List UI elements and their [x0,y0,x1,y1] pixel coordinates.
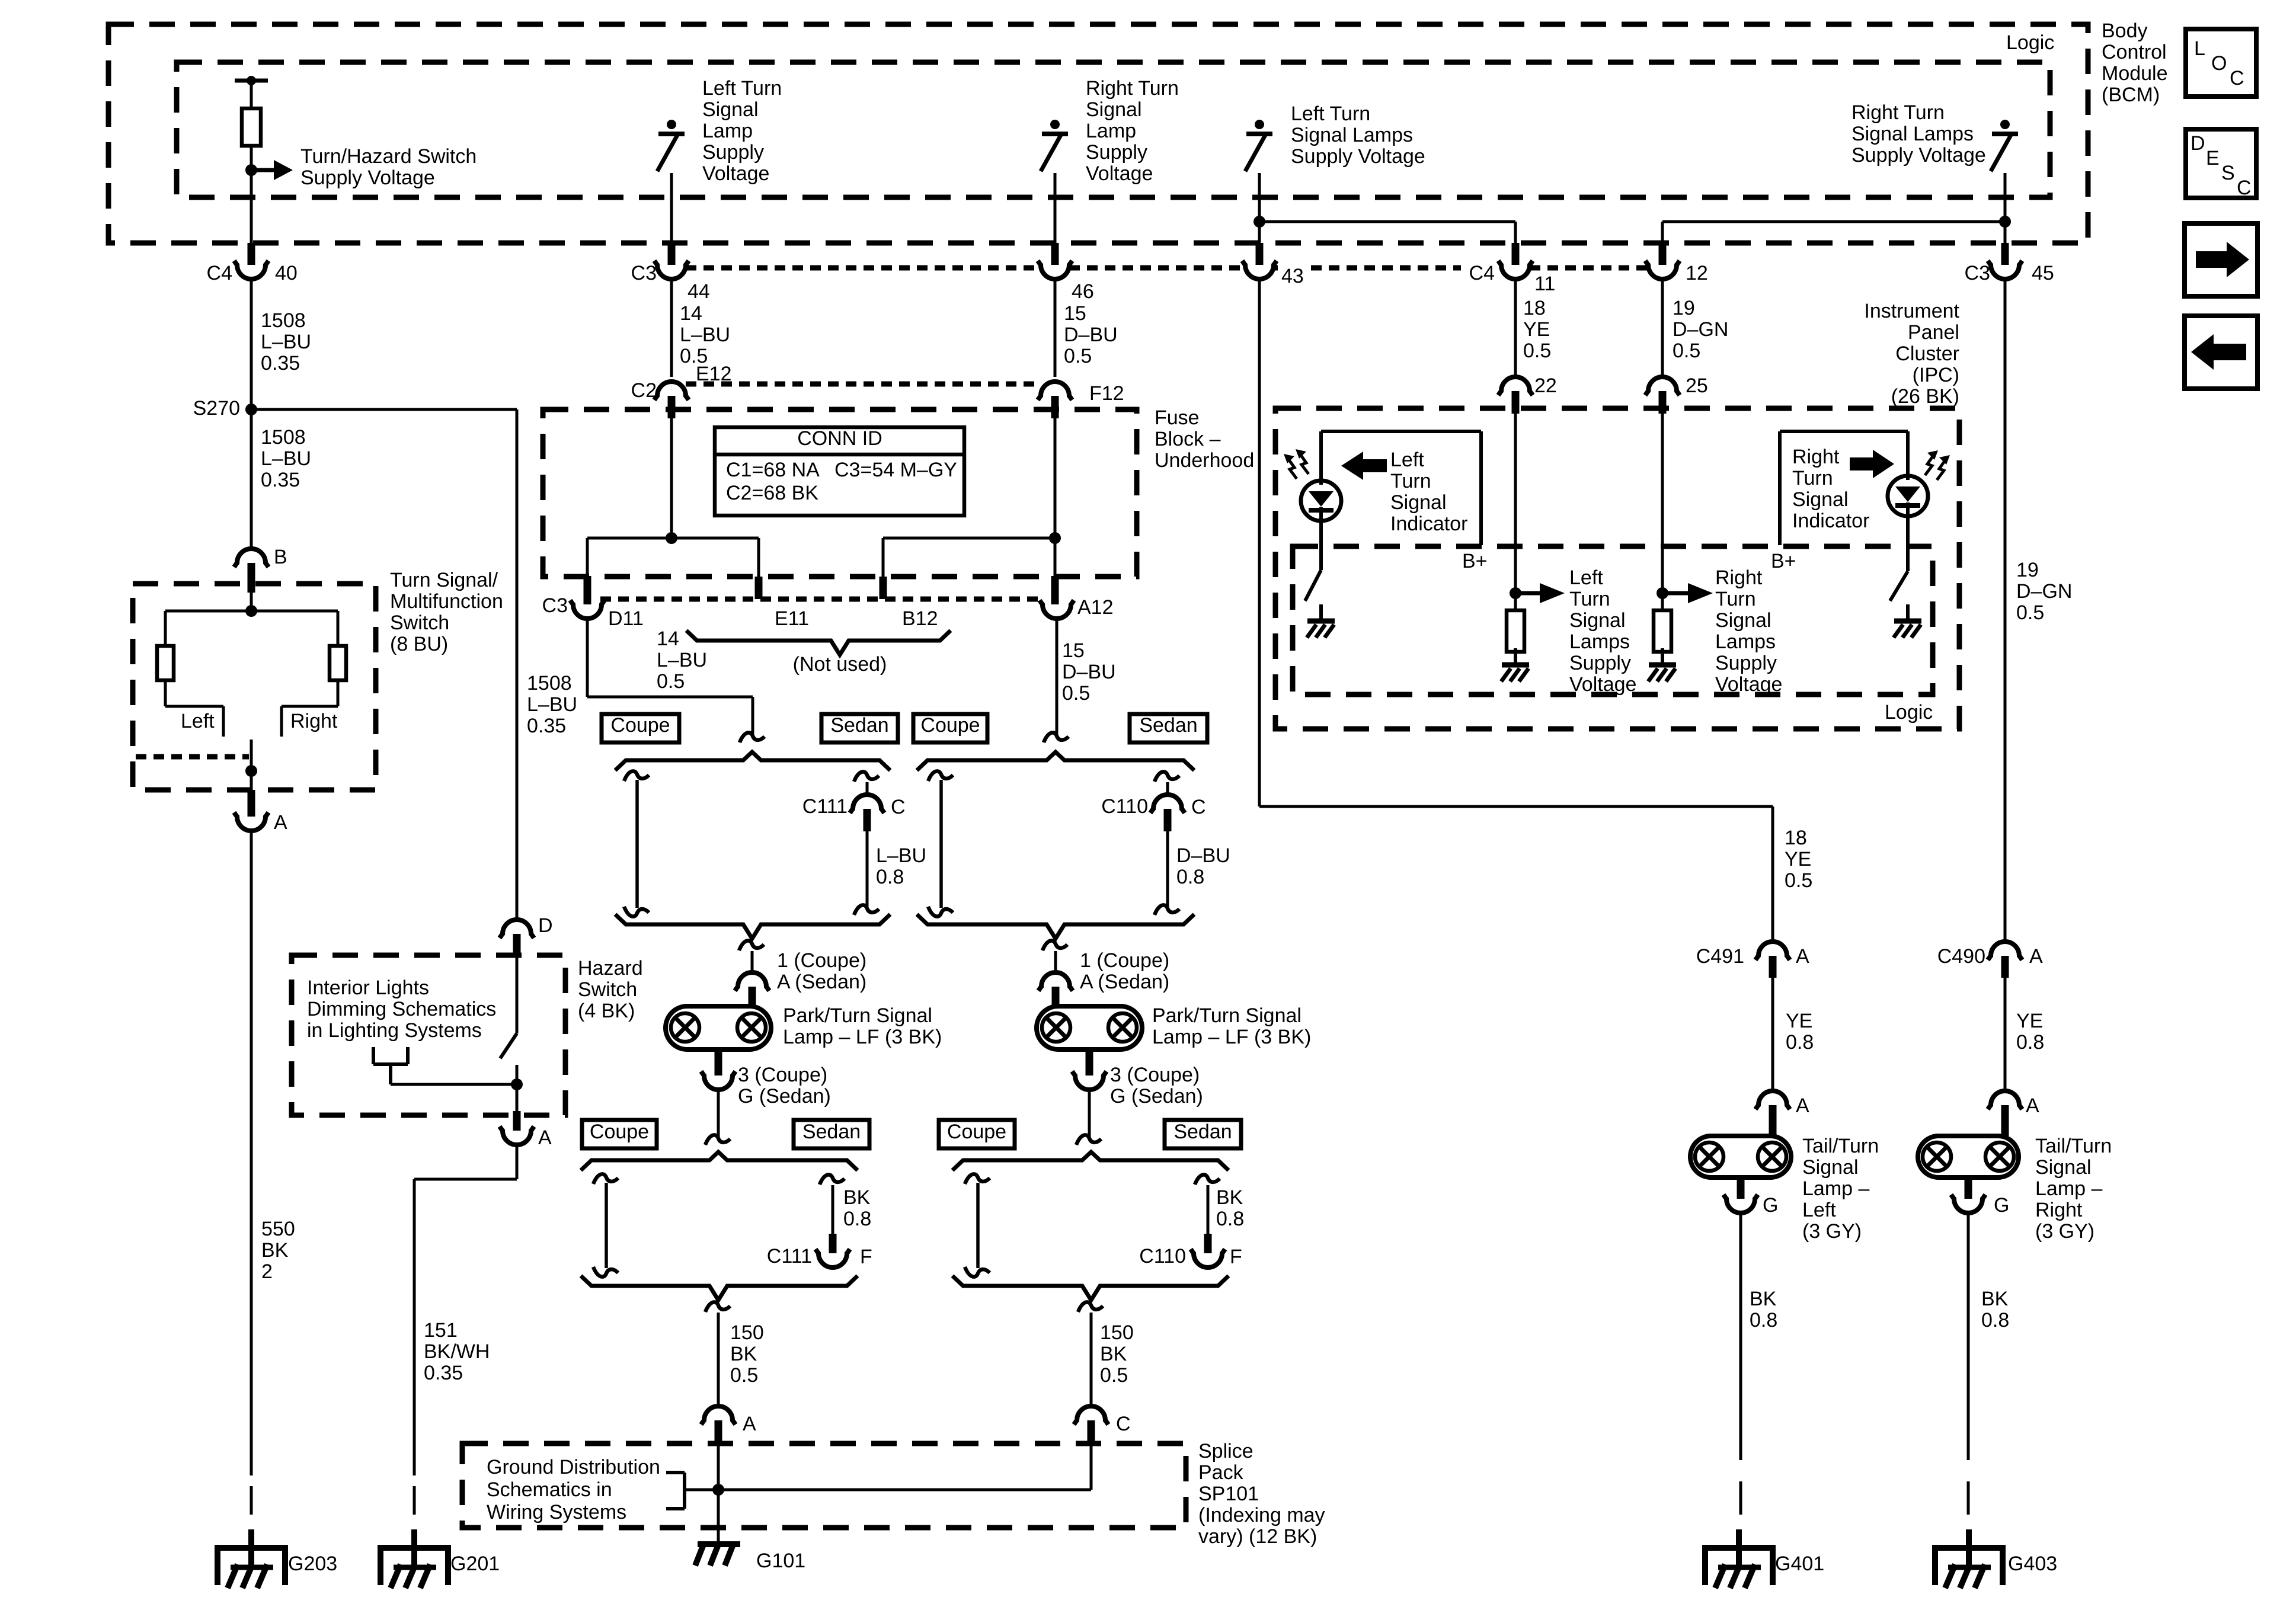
svg-text:Coupe: Coupe [610,714,670,737]
svg-text:46: 46 [1072,280,1094,303]
svg-text:D: D [2191,132,2205,155]
svg-text:E: E [2206,147,2220,169]
svg-text:19: 19 [1673,297,1695,319]
svg-text:11: 11 [1534,273,1555,295]
svg-text:G: G [1763,1194,1778,1217]
svg-text:C3: C3 [631,262,657,284]
svg-text:Sedan: Sedan [1139,714,1197,737]
svg-text:C2=68 BK: C2=68 BK [726,482,818,504]
svg-text:A: A [743,1413,756,1435]
svg-text:Supply Voltage: Supply Voltage [1851,144,1986,167]
svg-text:0.8: 0.8 [1786,1031,1814,1054]
svg-text:B12: B12 [902,607,938,630]
svg-text:C: C [891,796,906,818]
svg-text:SP101: SP101 [1198,1483,1259,1505]
svg-text:151: 151 [424,1319,458,1342]
svg-text:BK: BK [1981,1288,2009,1310]
svg-text:Signal: Signal [1086,98,1142,121]
svg-text:Sedan: Sedan [1173,1121,1232,1143]
svg-text:vary) (12 BK): vary) (12 BK) [1198,1525,1317,1548]
svg-text:Switch: Switch [578,978,637,1001]
svg-text:Multifunction: Multifunction [390,590,503,613]
svg-text:BK: BK [261,1239,289,1262]
svg-text:C111: C111 [802,795,848,818]
svg-text:19: 19 [2016,559,2039,581]
svg-text:0.8: 0.8 [1981,1309,2009,1331]
svg-text:25: 25 [1686,375,1708,397]
svg-text:L–BU: L–BU [876,844,926,867]
svg-text:(26 BK): (26 BK) [1891,385,1959,408]
svg-text:Interior Lights: Interior Lights [307,977,429,999]
svg-text:Signal: Signal [2035,1156,2092,1179]
svg-text:0.5: 0.5 [1523,340,1551,362]
svg-text:0.8: 0.8 [1176,866,1204,888]
svg-text:12: 12 [1686,262,1708,284]
svg-text:550: 550 [261,1218,295,1240]
svg-text:Supply Voltage: Supply Voltage [1291,145,1425,168]
svg-text:C4: C4 [207,262,232,284]
svg-text:0.5: 0.5 [2016,601,2044,624]
svg-text:1508: 1508 [261,426,306,449]
svg-text:F: F [1230,1246,1242,1268]
svg-text:L–BU: L–BU [261,331,311,353]
svg-text:(Indexing may: (Indexing may [1198,1504,1325,1526]
svg-text:A: A [2029,945,2043,968]
svg-text:A: A [538,1126,552,1149]
svg-text:L–BU: L–BU [527,693,577,716]
svg-text:G (Sedan): G (Sedan) [1110,1085,1203,1108]
svg-text:B: B [274,546,287,568]
svg-text:BK: BK [1216,1186,1243,1209]
svg-text:Park/Turn Signal: Park/Turn Signal [1152,1004,1302,1027]
svg-text:Hazard: Hazard [578,957,643,980]
svg-text:Signal: Signal [1569,609,1626,632]
svg-text:YE: YE [2016,1010,2043,1032]
svg-text:1508: 1508 [527,672,572,694]
svg-text:L–BU: L–BU [261,447,311,470]
svg-text:Signal Lamps: Signal Lamps [1851,123,1974,145]
svg-text:14: 14 [680,302,702,325]
svg-text:Voltage: Voltage [1086,162,1153,185]
svg-text:Signal: Signal [1802,1156,1859,1179]
svg-text:0.5: 0.5 [657,670,685,693]
svg-text:F12: F12 [1089,382,1124,405]
svg-text:A (Sedan): A (Sedan) [777,971,866,993]
svg-text:Splice: Splice [1198,1440,1253,1462]
svg-text:18: 18 [1523,297,1546,319]
svg-text:G403: G403 [2008,1553,2057,1575]
svg-text:A: A [1796,945,1809,968]
svg-text:BK: BK [843,1186,871,1209]
svg-text:Right: Right [290,710,338,732]
svg-text:E11: E11 [775,607,809,630]
svg-text:Supply: Supply [1715,652,1777,674]
svg-text:3 (Coupe): 3 (Coupe) [738,1064,827,1086]
svg-text:BK: BK [730,1343,757,1365]
svg-text:Underhood: Underhood [1155,449,1254,472]
svg-text:C: C [2237,177,2252,199]
svg-text:Sedan: Sedan [830,714,888,737]
svg-text:Supply: Supply [1086,141,1147,164]
svg-text:Right Turn: Right Turn [1851,101,1945,124]
svg-text:C3: C3 [1965,262,1990,284]
svg-text:F: F [860,1246,872,1268]
svg-text:A: A [1796,1094,1809,1117]
svg-text:A: A [2026,1094,2039,1117]
svg-text:(8 BU): (8 BU) [390,633,448,655]
svg-text:Left: Left [1390,449,1424,471]
svg-text:22: 22 [1534,375,1557,397]
svg-text:Voltage: Voltage [1715,673,1782,696]
svg-text:Turn: Turn [1569,588,1610,610]
svg-text:Signal Lamps: Signal Lamps [1291,124,1413,146]
svg-text:1 (Coupe): 1 (Coupe) [777,949,866,972]
svg-text:C: C [2230,67,2244,89]
svg-text:BK: BK [1750,1288,1777,1310]
svg-text:Lamp –: Lamp – [1802,1177,1869,1200]
svg-text:Pack: Pack [1198,1461,1244,1484]
svg-text:G (Sedan): G (Sedan) [738,1085,831,1108]
svg-text:Cluster: Cluster [1895,343,1959,365]
svg-text:Control: Control [2102,41,2167,63]
svg-text:Supply: Supply [702,141,764,164]
svg-text:14: 14 [657,628,679,650]
svg-text:Lamp – LF (3 BK): Lamp – LF (3 BK) [783,1026,942,1048]
svg-text:in Lighting Systems: in Lighting Systems [307,1019,482,1042]
svg-text:Logic: Logic [2006,31,2054,54]
svg-text:Left: Left [1802,1199,1836,1221]
svg-text:Right: Right [2035,1199,2083,1221]
svg-text:A (Sedan): A (Sedan) [1080,971,1169,993]
svg-text:C491: C491 [1696,945,1744,968]
svg-text:C: C [1116,1413,1131,1435]
svg-text:0.8: 0.8 [1216,1208,1244,1230]
svg-text:Body: Body [2102,20,2148,42]
svg-text:Right: Right [1792,446,1840,468]
svg-text:Right Turn: Right Turn [1086,77,1179,100]
svg-text:C4: C4 [1469,262,1495,284]
svg-text:Indicator: Indicator [1792,510,1869,532]
svg-text:0.5: 0.5 [1064,345,1092,367]
svg-text:0.35: 0.35 [261,352,300,375]
svg-text:0.35: 0.35 [527,715,566,737]
svg-text:(3 GY): (3 GY) [1802,1220,1862,1243]
svg-text:3 (Coupe): 3 (Coupe) [1110,1064,1200,1086]
svg-text:G201: G201 [450,1553,500,1575]
svg-text:Ground Distribution: Ground Distribution [487,1456,660,1478]
svg-text:Lamp – LF (3 BK): Lamp – LF (3 BK) [1152,1026,1311,1048]
svg-text:L–BU: L–BU [680,324,730,346]
svg-text:C110: C110 [1101,795,1148,818]
svg-text:D–GN: D–GN [2016,580,2072,603]
svg-text:C3: C3 [542,594,568,617]
svg-text:Lamp –: Lamp – [2035,1177,2102,1200]
svg-text:G: G [1994,1194,2009,1217]
svg-text:1 (Coupe): 1 (Coupe) [1080,949,1169,972]
svg-text:(4 BK): (4 BK) [578,1000,635,1022]
svg-text:Lamp: Lamp [1086,120,1136,142]
svg-text:B+: B+ [1771,550,1796,572]
svg-text:Signal: Signal [1390,491,1447,514]
svg-text:D11: D11 [608,607,644,630]
svg-text:1508: 1508 [261,309,306,332]
svg-text:15: 15 [1064,302,1086,325]
svg-text:Block –: Block – [1155,428,1221,450]
svg-text:150: 150 [1100,1321,1134,1344]
svg-text:Turn: Turn [1792,467,1833,489]
svg-text:0.5: 0.5 [730,1364,758,1387]
svg-text:Park/Turn Signal: Park/Turn Signal [783,1004,932,1027]
svg-text:150: 150 [730,1321,764,1344]
svg-text:Voltage: Voltage [1569,673,1636,696]
svg-text:Tail/Turn: Tail/Turn [2035,1135,2112,1157]
svg-text:Lamps: Lamps [1715,630,1776,653]
svg-text:C1=68 NA: C1=68 NA [726,459,820,481]
svg-text:Switch: Switch [390,612,449,634]
svg-text:0.8: 0.8 [843,1208,871,1230]
svg-text:Turn: Turn [1390,470,1431,492]
svg-text:Logic: Logic [1885,701,1933,724]
svg-text:C490: C490 [1937,945,1985,968]
svg-text:Schematics in: Schematics in [487,1478,612,1501]
svg-text:45: 45 [2032,262,2054,284]
svg-text:E12: E12 [696,363,732,385]
svg-text:Instrument: Instrument [1864,300,1959,322]
svg-text:0.5: 0.5 [1785,869,1812,892]
svg-text:0.35: 0.35 [424,1362,463,1384]
svg-text:Turn: Turn [1715,588,1756,610]
svg-text:L–BU: L–BU [657,649,707,671]
svg-text:Dimming Schematics: Dimming Schematics [307,998,496,1020]
svg-text:D–BU: D–BU [1062,661,1116,683]
svg-text:Indicator: Indicator [1390,513,1467,535]
svg-text:(3 GY): (3 GY) [2035,1220,2094,1243]
svg-text:G101: G101 [756,1550,805,1572]
svg-text:0.35: 0.35 [261,469,300,491]
svg-text:Left Turn: Left Turn [1291,103,1370,125]
svg-text:Coupe: Coupe [590,1121,649,1143]
svg-text:YE: YE [1785,848,1811,870]
svg-text:44: 44 [687,280,710,303]
svg-text:43: 43 [1281,265,1304,287]
svg-text:15: 15 [1062,639,1085,662]
svg-text:D–GN: D–GN [1673,318,1728,341]
svg-text:(BCM): (BCM) [2102,84,2160,106]
svg-text:L: L [2194,37,2205,60]
svg-text:C110: C110 [1139,1245,1186,1267]
svg-text:B+: B+ [1462,550,1488,572]
svg-text:40: 40 [275,262,298,284]
svg-text:Turn Signal/: Turn Signal/ [390,569,498,591]
svg-text:0.5: 0.5 [1062,682,1090,705]
svg-text:CONN ID: CONN ID [797,427,882,450]
svg-text:G203: G203 [288,1553,337,1575]
svg-text:C: C [1191,796,1206,818]
svg-text:Fuse: Fuse [1155,406,1200,429]
svg-text:D–BU: D–BU [1064,324,1118,346]
svg-text:S: S [2221,162,2235,184]
svg-text:G401: G401 [1775,1553,1824,1575]
svg-text:Coupe: Coupe [947,1121,1006,1143]
svg-text:S270: S270 [193,397,240,420]
svg-text:A: A [274,811,287,834]
svg-text:O: O [2211,52,2227,75]
svg-text:Signal: Signal [1792,488,1849,511]
svg-text:Voltage: Voltage [702,162,769,185]
svg-text:C2: C2 [631,379,657,402]
svg-text:0.5: 0.5 [1673,340,1700,362]
svg-text:C111: C111 [767,1245,812,1267]
svg-text:18: 18 [1785,827,1807,849]
svg-text:Left: Left [181,710,215,732]
svg-text:Module: Module [2102,62,2168,85]
svg-text:Lamp: Lamp [702,120,753,142]
svg-text:Wiring Systems: Wiring Systems [487,1501,626,1523]
svg-text:Sedan: Sedan [802,1121,861,1143]
svg-text:Coupe: Coupe [920,714,980,737]
svg-text:Signal: Signal [1715,609,1771,632]
svg-text:Left: Left [1569,566,1603,589]
svg-text:Supply: Supply [1569,652,1631,674]
svg-text:C3=54 M–GY: C3=54 M–GY [834,459,957,481]
svg-text:0.5: 0.5 [1100,1364,1128,1387]
svg-text:Supply Voltage: Supply Voltage [300,167,435,189]
svg-text:Signal: Signal [702,98,759,121]
svg-text:BK: BK [1100,1343,1127,1365]
svg-text:Right: Right [1715,566,1763,589]
svg-text:A12: A12 [1077,596,1114,619]
svg-text:2: 2 [261,1260,273,1283]
svg-text:Lamps: Lamps [1569,630,1630,653]
svg-text:Left Turn: Left Turn [702,77,782,100]
svg-text:YE: YE [1786,1010,1812,1032]
svg-text:D–BU: D–BU [1176,844,1230,867]
svg-text:(IPC): (IPC) [1913,364,1959,386]
svg-text:(Not used): (Not used) [793,653,887,676]
svg-text:0.8: 0.8 [2016,1031,2044,1054]
svg-text:YE: YE [1523,318,1550,341]
svg-text:Panel: Panel [1908,321,1959,344]
svg-text:D: D [538,914,553,937]
svg-text:Tail/Turn: Tail/Turn [1802,1135,1879,1157]
svg-text:BK/WH: BK/WH [424,1340,490,1363]
svg-text:0.8: 0.8 [876,866,904,888]
svg-text:0.8: 0.8 [1750,1309,1777,1331]
svg-text:Turn/Hazard Switch: Turn/Hazard Switch [300,145,477,168]
